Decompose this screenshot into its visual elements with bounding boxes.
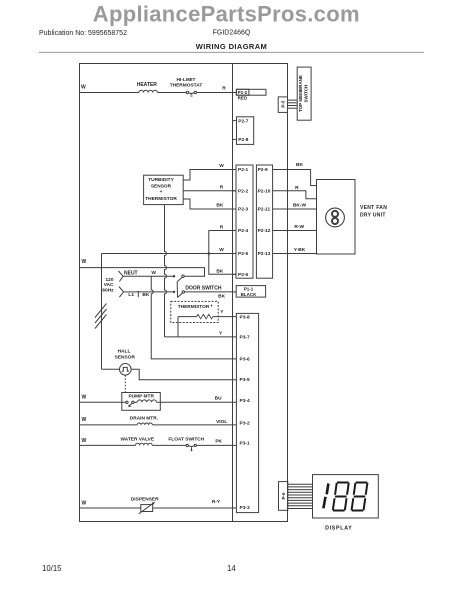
svg-text:W: W [82, 259, 87, 265]
wire hall sensor left to W riser [102, 368, 120, 370]
svg-text:DOOR SWITCH: DOOR SWITCH [185, 286, 221, 292]
header underline [39, 51, 424, 53]
svg-text:BK: BK [218, 293, 225, 299]
connector column P3 [236, 313, 258, 512]
heater element coil [139, 90, 157, 92]
svg-text:DRAIN MTR.: DRAIN MTR. [130, 416, 158, 422]
svg-text:DISPLAY: DISPLAY [325, 525, 352, 531]
wire W rail to door switch return [80, 268, 205, 277]
hall sensor B1 [115, 348, 136, 375]
svg-text:W: W [82, 438, 87, 444]
svg-text:HEATER: HEATER [137, 82, 158, 88]
svg-text:Y: Y [220, 309, 224, 315]
connector column P2-1..P2-6 [236, 165, 253, 278]
svg-text:BK: BK [216, 202, 223, 208]
svg-text:W: W [151, 270, 156, 276]
svg-text:DISPENSER: DISPENSER [131, 496, 159, 502]
svg-text:*: * [211, 305, 213, 311]
seven segment digit 8 (second) [350, 482, 368, 512]
wire NEUT to door switch [123, 275, 173, 277]
svg-text:P2-11: P2-11 [258, 207, 271, 213]
vent fan harness wire Y-BK [273, 253, 317, 255]
svg-text:P2-9: P2-9 [258, 167, 268, 173]
wire BU pump to P3-4 [160, 401, 236, 403]
svg-text:THERMISTOR: THERMISTOR [145, 196, 177, 202]
ribbon wires P-6 to display [288, 484, 313, 508]
svg-text:P2-4: P2-4 [238, 228, 248, 234]
svg-text:DRY UNIT: DRY UNIT [360, 213, 386, 219]
neutral sense drop to P3-6 with hop over L1 [151, 276, 236, 359]
wire drain to P3-2 [152, 424, 236, 426]
svg-text:P2-2: P2-2 [238, 189, 248, 195]
svg-text:BK: BK [216, 269, 223, 275]
wire W left border to heater [80, 92, 140, 94]
svg-text:P3-2: P3-2 [240, 421, 250, 427]
power cord chevron NEUT [118, 271, 123, 282]
wire L1 to door switch [124, 291, 173, 293]
wire BK turbidity to P2-3 [183, 199, 236, 209]
svg-text:BK: BK [142, 292, 149, 298]
svg-text:BLACK: BLACK [241, 292, 257, 297]
svg-text:5: 5 [190, 93, 193, 98]
connector P-6 [279, 482, 288, 511]
top membrane switch assembly [297, 67, 311, 120]
svg-text:TURBIDITY: TURBIDITY [148, 177, 174, 183]
svg-text:P3-1: P3-1 [240, 440, 250, 446]
power cord chevron L1 [119, 287, 124, 298]
svg-text:FGID2466Q: FGID2466Q [213, 30, 251, 37]
svg-text:R-W: R-W [294, 224, 304, 230]
svg-text:BU: BU [215, 396, 222, 402]
harness slash marks [95, 304, 107, 329]
svg-text:14: 14 [227, 564, 236, 573]
svg-text:R: R [295, 185, 299, 191]
wire heater to hi-limit thermostat [157, 92, 186, 94]
svg-text:R: R [220, 184, 224, 190]
control board edge bus line [232, 64, 234, 522]
svg-text:WATER VALVE: WATER VALVE [121, 436, 155, 442]
svg-text:P3-5: P3-5 [240, 377, 250, 383]
stub wires bus to P2-1..P2-6 [233, 170, 237, 275]
tie vertical for P2-4/P2-5/P2-6 [209, 231, 236, 275]
display unit box [313, 475, 379, 518]
svg-text:W: W [82, 394, 87, 400]
svg-text:BK-W: BK-W [293, 202, 307, 208]
vent fan harness wire R-W [273, 230, 317, 232]
svg-text:FLOAT SWITCH: FLOAT SWITCH [168, 436, 204, 442]
wires P-5 to membrane switch [288, 100, 298, 108]
svg-text:P2-10: P2-10 [258, 189, 271, 195]
dispenser actuator [139, 502, 155, 514]
diagram outer border (machine outline) [80, 64, 288, 522]
stub wire P2-8 [233, 138, 237, 140]
riser wire W to P2-5 and hall sensor [101, 254, 103, 370]
water valve L2 coil [135, 443, 152, 445]
svg-text:P3-6: P3-6 [240, 356, 250, 362]
svg-text:P2-7: P2-7 [238, 119, 248, 125]
svg-text:R-Y: R-Y [212, 499, 221, 505]
svg-text:NEUT: NEUT [124, 270, 138, 276]
wire W to water valve [80, 444, 136, 446]
vent fan harness wire R [273, 191, 317, 199]
svg-text:P2-8: P2-8 [238, 137, 248, 143]
seven segment digit 1 [323, 484, 328, 509]
wire W to pump motor [80, 401, 122, 403]
wire BK door switch to P1-1 [185, 291, 237, 293]
dashed link hall sensor to pump [124, 375, 126, 392]
svg-text:P1-2: P1-2 [238, 90, 248, 95]
turbidity sensor + thermistor [144, 175, 184, 204]
svg-text:VENT FAN: VENT FAN [360, 205, 387, 211]
wire W turbidity to P2-1 [183, 170, 236, 181]
svg-text:SENSOR: SENSOR [115, 355, 136, 361]
splice tick [137, 291, 139, 297]
svg-text:P1-1: P1-1 [244, 287, 254, 292]
stub wire P2-7 [233, 120, 237, 122]
pump motor M2 [122, 393, 161, 411]
svg-text:Y-BK: Y-BK [294, 247, 306, 253]
svg-text:10/15: 10/15 [42, 564, 62, 573]
svg-text:THERMOSTAT: THERMOSTAT [170, 82, 203, 88]
svg-text:60Hz: 60Hz [102, 287, 114, 293]
hi-limit thermostat switch S1 [186, 91, 196, 98]
svg-text:P2-1: P2-1 [238, 167, 248, 173]
svg-text:THERMISTOR: THERMISTOR [178, 304, 210, 310]
door switch S2 (double pole) [173, 275, 185, 297]
svg-text:W: W [219, 247, 224, 253]
svg-text:W: W [81, 85, 86, 91]
wire R turbidity to P2-2 [183, 190, 236, 192]
svg-text:PK: PK [215, 438, 222, 444]
connector P2-7 / P2-8 [237, 117, 254, 145]
svg-text:PUMP MTR: PUMP MTR [128, 394, 154, 400]
wire hall sensor to P3-5 [131, 369, 236, 379]
connector P-5 [278, 97, 287, 113]
svg-text:P3-3: P3-3 [240, 505, 250, 511]
svg-text:W: W [82, 501, 87, 507]
svg-text:P2-13: P2-13 [258, 251, 271, 257]
float switch S3 [186, 444, 196, 451]
svg-text:P3-4: P3-4 [240, 398, 250, 404]
svg-text:P2-6: P2-6 [238, 272, 248, 278]
svg-text:P-5: P-5 [281, 100, 286, 108]
svg-text:HI-LIMIT: HI-LIMIT [177, 77, 196, 83]
wire thermostat to connector P1-2 [197, 92, 237, 94]
svg-text:TOP MEMBRANE: TOP MEMBRANE [298, 75, 303, 112]
vent fan harness wire BK-W [273, 208, 317, 210]
svg-text:R: R [222, 86, 226, 92]
connector column P2-9..P2-13 [256, 165, 272, 278]
thermistor left lead [177, 317, 179, 337]
vent fan dry unit box [317, 180, 356, 255]
drain motor M3 coil [137, 423, 152, 425]
svg-text:WIRING DIAGRAM: WIRING DIAGRAM [196, 42, 267, 51]
wire valve to float switch [152, 444, 186, 446]
svg-text:SENSOR: SENSOR [151, 183, 172, 189]
svg-text:VIOL: VIOL [216, 419, 227, 425]
svg-text:P3-7: P3-7 [240, 334, 250, 340]
svg-text:L1: L1 [128, 292, 134, 298]
connector P1-1 BLACK [236, 286, 265, 298]
turbidity thermistor drop wire with wire hops [165, 205, 167, 337]
svg-text:P2-5: P2-5 [238, 251, 248, 257]
svg-text:P2-3: P2-3 [238, 207, 248, 213]
thermistor RT1 resistor [178, 314, 236, 318]
svg-text:+: + [160, 190, 163, 195]
svg-text:HALL: HALL [118, 348, 131, 354]
svg-text:VAC: VAC [104, 282, 114, 288]
wire W drain motor to P3-2 [80, 424, 138, 426]
svg-text:Publication No: 5995658752: Publication No: 5995658752 [39, 30, 127, 37]
wire PK float switch to P3-1 [196, 444, 236, 446]
wire W dispenser to P3-3 [80, 507, 237, 509]
svg-text:P-6: P-6 [281, 492, 286, 500]
svg-text:RED: RED [238, 95, 248, 100]
vent fan harness wire BK [273, 170, 317, 186]
seven segment digit 8 (first) [332, 482, 350, 512]
thermistor dashed box [171, 301, 218, 322]
svg-text:BK: BK [296, 162, 303, 168]
wire Y to P3-7 [165, 336, 237, 338]
svg-text:W: W [82, 417, 87, 423]
connector P1-2 RED [236, 89, 266, 100]
svg-text:R: R [220, 225, 224, 231]
wire W to P2-5 [102, 253, 237, 255]
svg-text:SWITCH: SWITCH [304, 85, 309, 103]
svg-text:Y: Y [219, 330, 223, 336]
svg-text:W: W [219, 163, 224, 169]
svg-text:P3-8: P3-8 [240, 314, 250, 320]
svg-text:AppliancePartsPros.com: AppliancePartsPros.com [93, 2, 360, 27]
vent fan motor symbol M1 [326, 208, 345, 227]
junction dot on W wire [208, 252, 211, 255]
svg-text:P2-12: P2-12 [258, 228, 271, 234]
